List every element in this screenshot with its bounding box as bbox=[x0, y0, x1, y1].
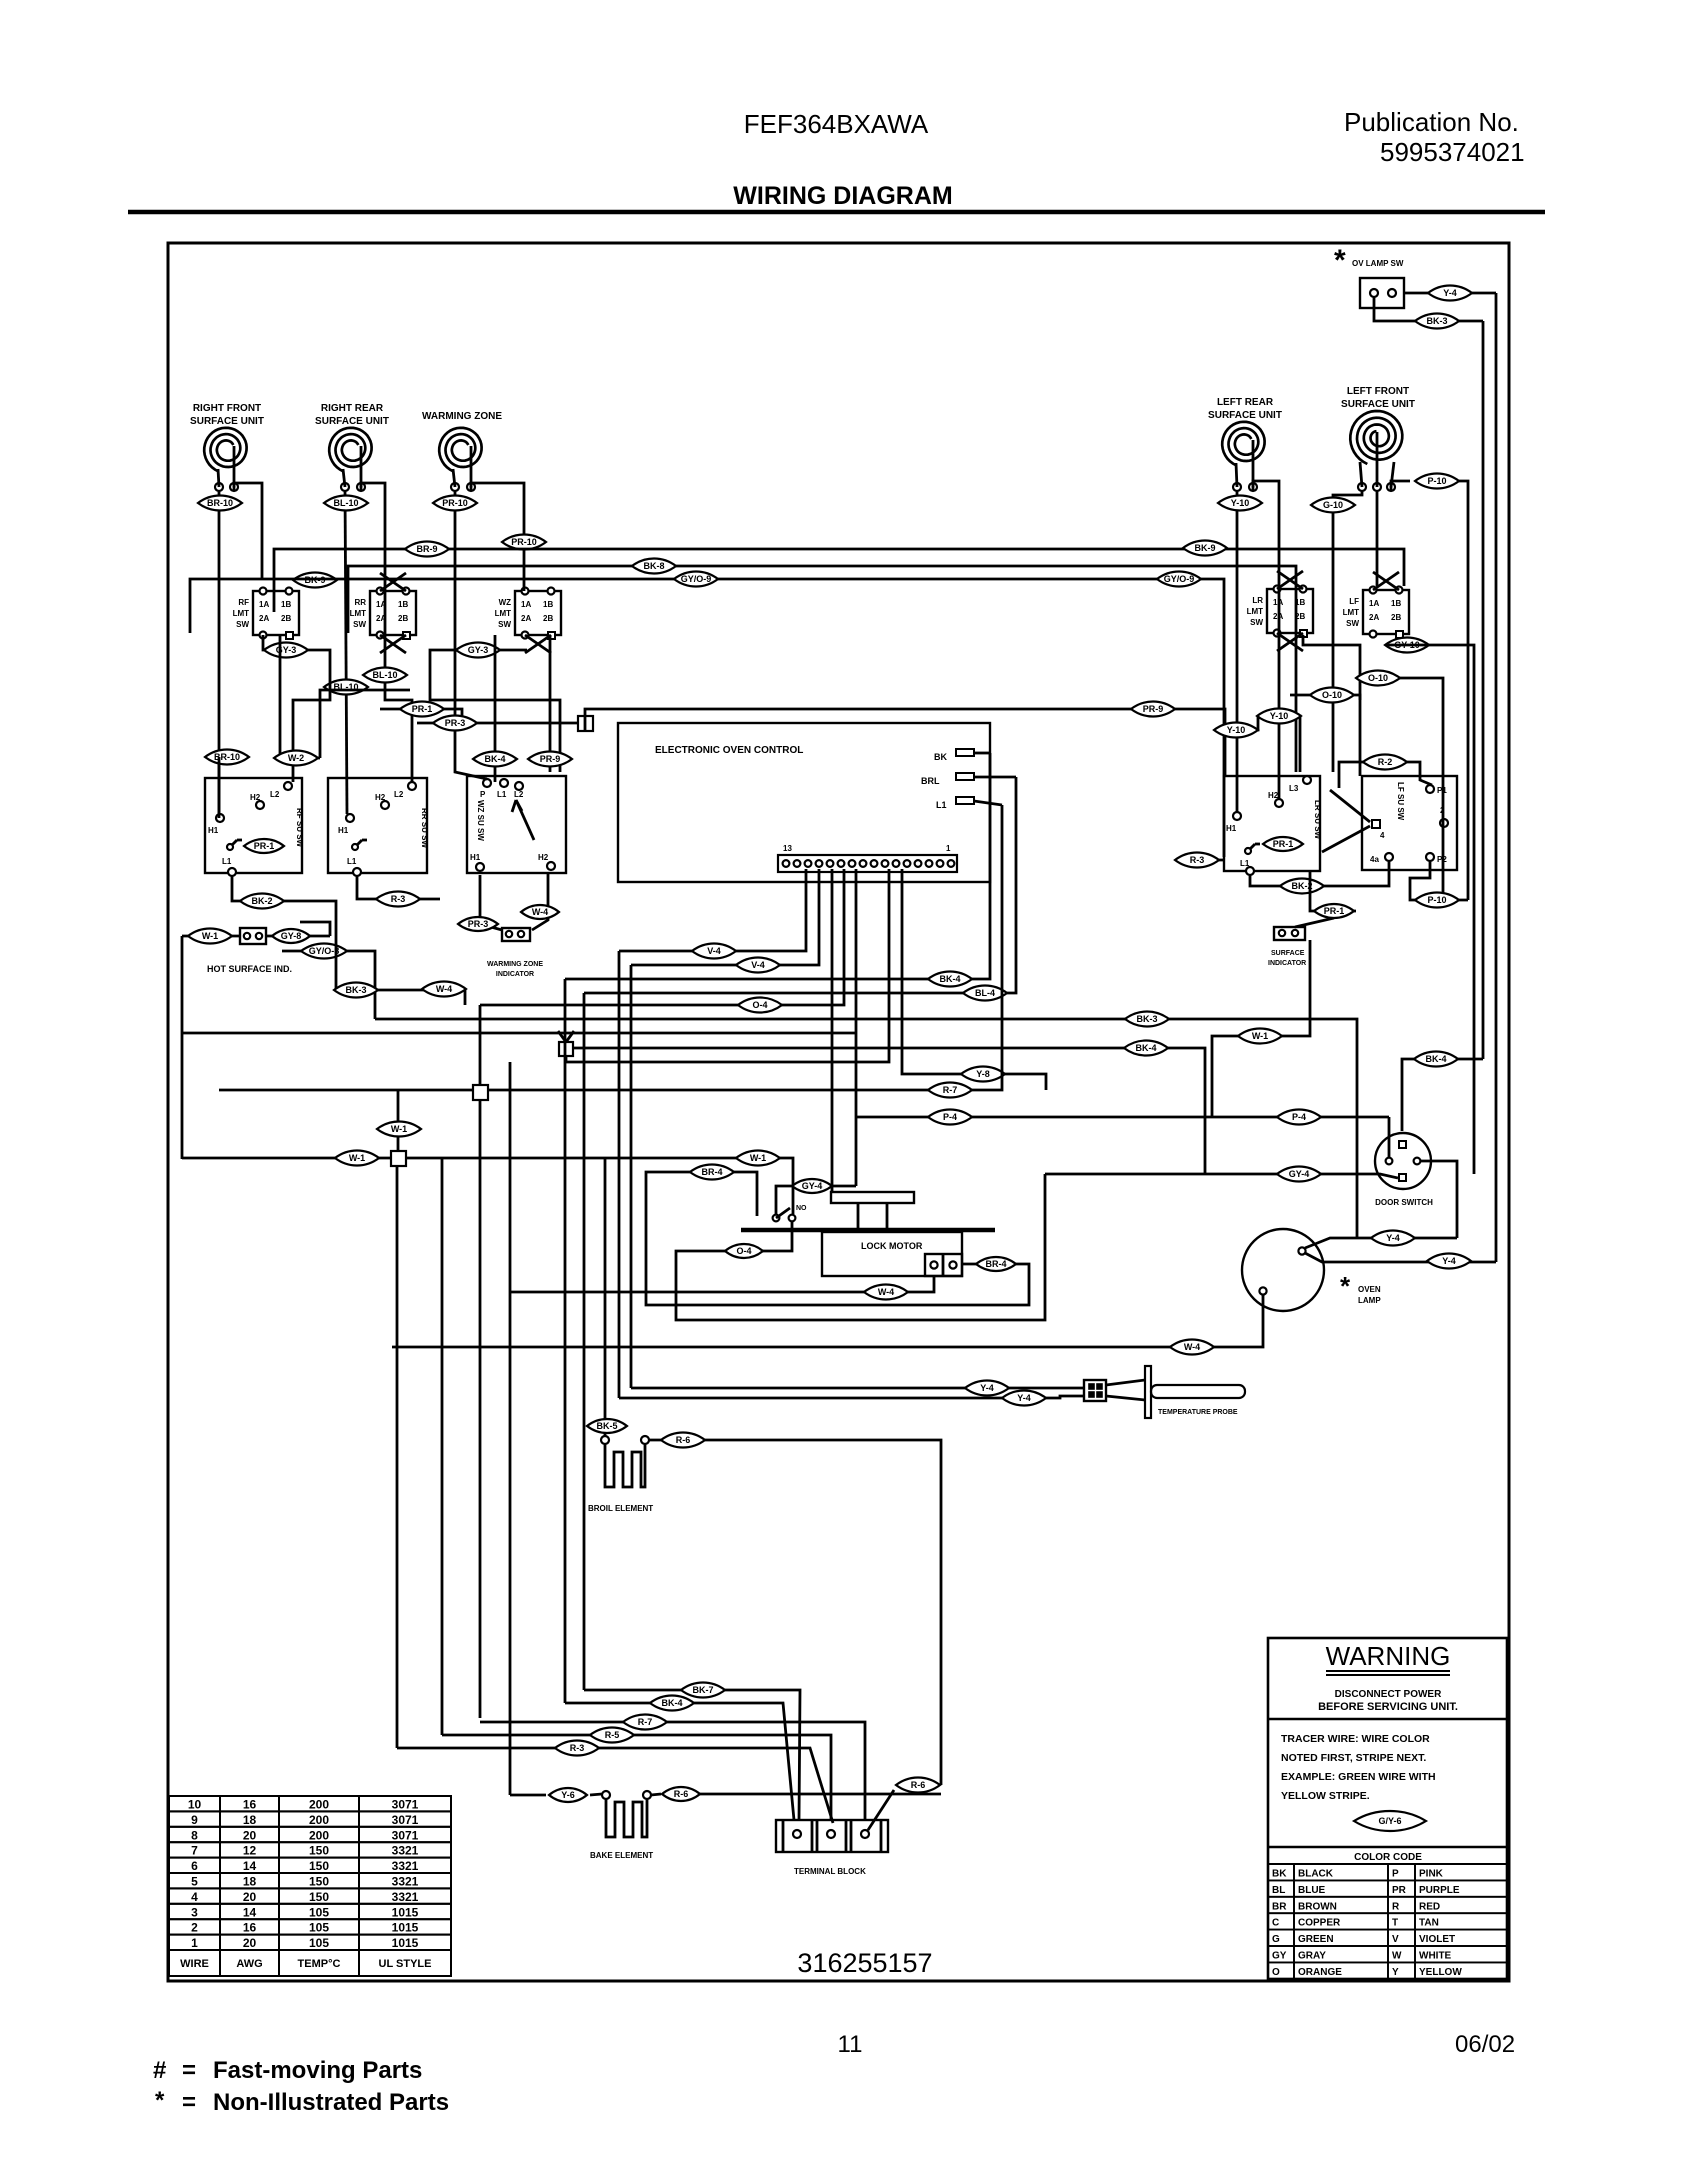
connector oval PR-3 bbox=[458, 917, 498, 931]
svg-text:1015: 1015 bbox=[392, 1936, 419, 1950]
wire bbox=[856, 1116, 1389, 1119]
svg-text:Y-4: Y-4 bbox=[1386, 1233, 1400, 1243]
connector oval BK-9 bbox=[1183, 541, 1227, 556]
lock switch lever contacts bbox=[773, 1215, 780, 1222]
connector oval PR-1 bbox=[400, 702, 444, 717]
svg-text:W-1: W-1 bbox=[202, 931, 218, 941]
wire bbox=[1376, 491, 1379, 586]
svg-text:W-1: W-1 bbox=[1252, 1031, 1268, 1041]
svg-text:LF: LF bbox=[1349, 597, 1359, 606]
svg-text:R-6: R-6 bbox=[674, 1789, 689, 1799]
svg-text:LMT: LMT bbox=[1343, 608, 1360, 617]
svg-text:PR-10: PR-10 bbox=[511, 537, 537, 547]
wire bbox=[1421, 1161, 1457, 1238]
svg-text:BLACK: BLACK bbox=[1298, 1869, 1334, 1880]
wire V-4 run bbox=[631, 869, 819, 965]
connector oval V-4 bbox=[736, 958, 780, 973]
svg-text:Y-4: Y-4 bbox=[1017, 1393, 1031, 1403]
lock motor bar bbox=[741, 1228, 995, 1233]
svg-text:#: # bbox=[153, 2057, 166, 2084]
svg-text:V-4: V-4 bbox=[751, 960, 765, 970]
svg-text:105: 105 bbox=[309, 1921, 329, 1935]
svg-text:BEFORE SERVICING UNIT.: BEFORE SERVICING UNIT. bbox=[1318, 1701, 1458, 1713]
wire long run BR-9/BK-9 bbox=[274, 549, 1404, 612]
svg-text:3071: 3071 bbox=[392, 1798, 419, 1812]
connector oval BK-3 bbox=[1415, 314, 1459, 329]
connector oval GY/O-9 bbox=[1157, 572, 1201, 587]
svg-text:G-10: G-10 bbox=[1323, 500, 1343, 510]
svg-text:VIOLET: VIOLET bbox=[1419, 1934, 1455, 1945]
wire bbox=[974, 752, 990, 755]
svg-text:16: 16 bbox=[243, 1798, 257, 1812]
svg-text:1B: 1B bbox=[398, 600, 408, 609]
svg-text:Y-4: Y-4 bbox=[980, 1383, 994, 1393]
connector oval Y-10 bbox=[1218, 496, 1262, 511]
wire bbox=[532, 872, 548, 930]
wire bbox=[1374, 297, 1415, 321]
svg-text:LAMP: LAMP bbox=[1358, 1296, 1381, 1305]
svg-text:PINK: PINK bbox=[1419, 1869, 1444, 1880]
connector oval W-2 bbox=[274, 751, 318, 766]
svg-text:WARMING ZONE: WARMING ZONE bbox=[422, 411, 502, 422]
wire bbox=[634, 1735, 831, 1820]
svg-text:SW: SW bbox=[353, 620, 366, 629]
svg-text:*: * bbox=[155, 2087, 165, 2114]
wire bbox=[1495, 293, 1498, 1262]
electronic oven control box bbox=[618, 723, 990, 882]
svg-text:Y: Y bbox=[1392, 1967, 1399, 1978]
wire bbox=[1253, 481, 1279, 799]
wire bbox=[494, 635, 497, 782]
wire bbox=[509, 1062, 512, 1795]
svg-text:R-3: R-3 bbox=[570, 1743, 585, 1753]
svg-text:150: 150 bbox=[309, 1859, 329, 1873]
svg-text:BK-8: BK-8 bbox=[643, 561, 664, 571]
svg-text:16: 16 bbox=[243, 1921, 257, 1935]
connector oval R-2 bbox=[1363, 755, 1407, 770]
svg-text:P: P bbox=[1392, 1869, 1399, 1880]
wire bbox=[441, 1158, 444, 1735]
wire crossover below WZ LMT bbox=[525, 635, 551, 653]
svg-text:=: = bbox=[182, 2057, 196, 2084]
wire bbox=[232, 876, 336, 990]
wire bbox=[831, 869, 834, 1192]
wire bbox=[263, 635, 330, 782]
svg-text:105: 105 bbox=[309, 1905, 329, 1919]
wire bbox=[700, 1793, 941, 1796]
svg-text:5995374021: 5995374021 bbox=[1380, 137, 1525, 167]
connector oval G-10 bbox=[1311, 498, 1355, 513]
connector oval R-7 bbox=[623, 1715, 667, 1730]
surface switch LR SU SW bbox=[1224, 776, 1320, 871]
svg-text:LEFT REAR: LEFT REAR bbox=[1217, 397, 1274, 408]
svg-text:BR: BR bbox=[1272, 1901, 1287, 1912]
wire O-4 run bbox=[676, 1174, 1045, 1320]
title underline rule bbox=[128, 210, 1545, 215]
wire bbox=[1216, 716, 1258, 730]
limit switch WZ LMT SW bbox=[515, 591, 561, 635]
connector oval O-4 bbox=[725, 1244, 763, 1258]
svg-text:BK-4: BK-4 bbox=[939, 974, 960, 984]
connector oval Y-6 bbox=[549, 1788, 587, 1802]
svg-text:GY-8: GY-8 bbox=[281, 931, 302, 941]
connector oval Y-10 bbox=[1257, 709, 1301, 724]
lock motor body bbox=[822, 1232, 962, 1276]
svg-text:105: 105 bbox=[309, 1936, 329, 1950]
wire BRL run bbox=[584, 777, 1016, 993]
svg-text:YELLOW STRIPE.: YELLOW STRIPE. bbox=[1281, 1790, 1370, 1802]
svg-text:BK-4: BK-4 bbox=[661, 1698, 682, 1708]
svg-text:1B: 1B bbox=[281, 600, 291, 609]
svg-text:V-4: V-4 bbox=[707, 946, 721, 956]
surface switch LF SU SW bbox=[1362, 776, 1457, 870]
bake element terminals bbox=[602, 1791, 610, 1799]
svg-text:SURFACE UNIT: SURFACE UNIT bbox=[1341, 399, 1415, 410]
connector oval W-4 bbox=[422, 982, 466, 997]
connector oval BK-2 bbox=[1280, 879, 1324, 894]
svg-text:O: O bbox=[1272, 1967, 1280, 1978]
wire bbox=[667, 1722, 865, 1820]
wire crossover below RR LMT bbox=[380, 635, 406, 653]
svg-text:R-3: R-3 bbox=[391, 894, 406, 904]
connector oval BK-4 bbox=[650, 1696, 694, 1711]
wire W-4 return bbox=[511, 1276, 934, 1292]
wire bbox=[974, 776, 1016, 779]
wire crossover below LR LMT bbox=[1277, 633, 1303, 651]
svg-text:BK-4: BK-4 bbox=[1135, 1043, 1156, 1053]
svg-text:HOT SURFACE IND.: HOT SURFACE IND. bbox=[207, 964, 292, 974]
svg-text:3321: 3321 bbox=[392, 1844, 419, 1858]
surface unit coil RIGHT REAR bbox=[329, 428, 371, 472]
wire bbox=[361, 483, 412, 782]
svg-text:BR-9: BR-9 bbox=[416, 544, 437, 554]
svg-text:TERMINAL BLOCK: TERMINAL BLOCK bbox=[794, 1867, 866, 1876]
junction bbox=[559, 1042, 573, 1056]
svg-text:O-10: O-10 bbox=[1322, 690, 1342, 700]
svg-text:G/Y-6: G/Y-6 bbox=[1378, 1816, 1401, 1826]
svg-text:GY-4: GY-4 bbox=[1289, 1169, 1310, 1179]
connector oval GY-4 bbox=[1277, 1167, 1321, 1182]
wire crossover above LR LMT bbox=[1277, 571, 1303, 589]
wire long run PR-9 bbox=[585, 709, 1225, 776]
svg-text:C: C bbox=[1272, 1918, 1279, 1929]
svg-text:WHITE: WHITE bbox=[1419, 1951, 1452, 1962]
hot surface indicator box bbox=[240, 928, 266, 944]
wire bbox=[1176, 859, 1224, 862]
svg-text:ORANGE: ORANGE bbox=[1298, 1967, 1342, 1978]
wire bbox=[1305, 1253, 1496, 1262]
wire bbox=[974, 801, 1002, 805]
svg-text:BROWN: BROWN bbox=[1298, 1901, 1337, 1912]
svg-text:L1: L1 bbox=[936, 800, 947, 810]
wire bbox=[479, 1005, 482, 1085]
EOC terminal strip bbox=[778, 855, 957, 872]
svg-text:W-1: W-1 bbox=[391, 1124, 407, 1134]
connector oval P-10 bbox=[1415, 474, 1459, 489]
limit switch RR LMT SW bbox=[370, 591, 416, 635]
svg-text:AWG: AWG bbox=[236, 1958, 262, 1970]
wire bbox=[480, 875, 502, 930]
svg-text:YELLOW: YELLOW bbox=[1419, 1967, 1462, 1978]
wire bbox=[406, 1158, 793, 1214]
svg-text:L2: L2 bbox=[270, 790, 280, 799]
wire bbox=[510, 1794, 546, 1797]
svg-text:SURFACE UNIT: SURFACE UNIT bbox=[1208, 410, 1282, 421]
svg-text:2A: 2A bbox=[1369, 613, 1379, 622]
connector oval GY-8 bbox=[272, 929, 310, 943]
connector oval GY/O-9 bbox=[674, 572, 718, 587]
svg-text:WIRE: WIRE bbox=[180, 1958, 209, 1970]
connector oval PR-10 bbox=[502, 535, 546, 550]
svg-text:3321: 3321 bbox=[392, 1859, 419, 1873]
wire Y-4 run bbox=[631, 1387, 1084, 1390]
svg-text:LMT: LMT bbox=[350, 609, 367, 618]
svg-text:Non-Illustrated Parts: Non-Illustrated Parts bbox=[213, 2089, 449, 2116]
connector oval P-4 bbox=[1277, 1110, 1321, 1125]
svg-text:DOOR SWITCH: DOOR SWITCH bbox=[1375, 1198, 1433, 1207]
temperature probe tube bbox=[1151, 1385, 1245, 1398]
svg-text:GY/O-9: GY/O-9 bbox=[1164, 574, 1195, 584]
connector oval W-1 bbox=[188, 929, 232, 944]
svg-text:R-3: R-3 bbox=[1190, 855, 1205, 865]
connector oval BL-4 bbox=[963, 986, 1007, 1001]
wire WZ coil lead bbox=[455, 491, 487, 779]
limit switch LF LMT SW bbox=[1363, 590, 1409, 634]
wire bbox=[397, 1099, 400, 1151]
svg-text:H2: H2 bbox=[250, 793, 261, 802]
surface unit coil WARMING ZONE bbox=[439, 428, 481, 472]
connector oval P-4 bbox=[928, 1110, 972, 1125]
connector oval W-1 bbox=[736, 1151, 780, 1166]
lock motor switch contacts bbox=[930, 1261, 937, 1268]
svg-text:R-7: R-7 bbox=[638, 1717, 653, 1727]
wire bbox=[902, 869, 1046, 1090]
svg-text:BL: BL bbox=[1272, 1885, 1285, 1896]
wire bbox=[300, 922, 330, 936]
wire bbox=[357, 876, 440, 899]
svg-text:PR-1: PR-1 bbox=[1273, 839, 1294, 849]
svg-text:2B: 2B bbox=[398, 614, 408, 623]
connector oval BK-4 bbox=[1124, 1041, 1168, 1056]
svg-text:7: 7 bbox=[191, 1844, 198, 1858]
svg-text:H1: H1 bbox=[1226, 824, 1237, 833]
svg-text:GY: GY bbox=[1272, 1951, 1287, 1962]
svg-text:R-6: R-6 bbox=[911, 1780, 926, 1790]
svg-text:UL STYLE: UL STYLE bbox=[379, 1958, 432, 1970]
svg-text:18: 18 bbox=[243, 1813, 257, 1827]
svg-text:1B: 1B bbox=[1391, 599, 1401, 608]
junction bbox=[473, 1085, 488, 1100]
wire O-4 run bbox=[480, 869, 844, 1005]
wire GY/O-8 run bbox=[282, 951, 375, 1019]
connector oval PR-1 bbox=[1263, 837, 1303, 851]
svg-text:SURFACE: SURFACE bbox=[1271, 950, 1305, 957]
temperature probe taper bbox=[1106, 1380, 1145, 1385]
wire bbox=[181, 936, 184, 1159]
svg-text:2A: 2A bbox=[259, 614, 269, 623]
svg-text:L2: L2 bbox=[514, 790, 524, 799]
wire bbox=[182, 1157, 391, 1160]
terminal block dividers bbox=[811, 1820, 814, 1852]
svg-text:P-10: P-10 bbox=[1427, 895, 1446, 905]
svg-text:6: 6 bbox=[191, 1859, 198, 1873]
oven lamp switch box bbox=[1360, 278, 1404, 308]
wire bbox=[599, 1748, 833, 1823]
wire bbox=[564, 979, 567, 1703]
svg-text:RR: RR bbox=[354, 598, 366, 607]
wire long run GY/O-9 bbox=[190, 579, 1224, 857]
connector oval BK-9 bbox=[293, 573, 337, 588]
wire bbox=[583, 993, 586, 1690]
svg-text:BLUE: BLUE bbox=[1298, 1885, 1326, 1896]
connector oval R-6 bbox=[661, 1433, 705, 1448]
connector oval BK-3 bbox=[1125, 1012, 1169, 1027]
wire bbox=[219, 1089, 473, 1092]
svg-text:FEF364BXAWA: FEF364BXAWA bbox=[744, 109, 929, 139]
svg-text:W-4: W-4 bbox=[1184, 1342, 1200, 1352]
connector oval PR-3 bbox=[433, 716, 477, 731]
svg-text:RIGHT REAR: RIGHT REAR bbox=[321, 403, 384, 414]
wire RF coil to H1 bbox=[218, 491, 221, 814]
svg-text:BK-4: BK-4 bbox=[484, 754, 505, 764]
svg-text:BR-4: BR-4 bbox=[701, 1167, 722, 1177]
connector oval PR-1 bbox=[1314, 904, 1354, 918]
svg-text:3321: 3321 bbox=[392, 1890, 419, 1904]
connector oval P-10 bbox=[1415, 893, 1459, 908]
svg-text:1A: 1A bbox=[521, 600, 531, 609]
connector oval BK-7 bbox=[681, 1683, 725, 1698]
connector oval BR-10 bbox=[198, 496, 242, 511]
svg-text:2B: 2B bbox=[1391, 613, 1401, 622]
svg-text:OVEN: OVEN bbox=[1358, 1285, 1381, 1294]
wire gauge table bbox=[169, 1796, 220, 1811]
wire bbox=[234, 483, 262, 579]
connector oval W-4 bbox=[521, 905, 559, 919]
wire crossover above RR LMT bbox=[380, 573, 406, 591]
svg-text:BK-2: BK-2 bbox=[251, 896, 272, 906]
broil element bbox=[605, 1444, 645, 1487]
svg-text:L3: L3 bbox=[1289, 784, 1299, 793]
wire bbox=[566, 869, 889, 1062]
connector oval R-3 bbox=[1175, 853, 1219, 868]
connector oval W-1 bbox=[377, 1122, 421, 1137]
wire bbox=[1472, 292, 1496, 295]
wire PR-3 run bbox=[417, 722, 578, 725]
svg-text:L1: L1 bbox=[222, 857, 232, 866]
wire bbox=[1310, 871, 1356, 911]
surface switch RF SU SW bbox=[205, 778, 302, 873]
connector oval GY-4 bbox=[792, 1179, 832, 1193]
wire bbox=[1410, 861, 1468, 900]
connector oval BL-10 bbox=[363, 668, 407, 683]
wire bbox=[590, 1794, 602, 1795]
svg-text:W-4: W-4 bbox=[532, 907, 548, 917]
svg-text:RF: RF bbox=[238, 598, 249, 607]
connector oval G/Y-6 bbox=[1354, 1811, 1426, 1831]
svg-text:1015: 1015 bbox=[392, 1905, 419, 1919]
connector oval O-4 bbox=[738, 998, 782, 1013]
svg-text:P-4: P-4 bbox=[1292, 1112, 1306, 1122]
svg-text:20: 20 bbox=[243, 1890, 257, 1904]
wire bbox=[868, 1790, 894, 1830]
svg-text:R-7: R-7 bbox=[943, 1085, 958, 1095]
svg-text:P-10: P-10 bbox=[1427, 476, 1446, 486]
connector oval BK-8 bbox=[632, 559, 676, 574]
connector oval BK-5 bbox=[587, 1419, 627, 1433]
svg-text:BK-4: BK-4 bbox=[1425, 1054, 1446, 1064]
svg-text:SW: SW bbox=[1250, 618, 1263, 627]
wire bbox=[479, 1100, 482, 1718]
svg-text:BK: BK bbox=[934, 752, 947, 762]
wire bbox=[1295, 918, 1334, 927]
svg-text:O-10: O-10 bbox=[1368, 673, 1388, 683]
oven lamp terminals bbox=[1298, 1247, 1305, 1254]
svg-text:4: 4 bbox=[1380, 831, 1385, 840]
svg-text:COLOR CODE: COLOR CODE bbox=[1354, 1852, 1422, 1863]
wire bbox=[651, 1794, 661, 1795]
svg-text:L1: L1 bbox=[347, 857, 357, 866]
temperature probe flange bbox=[1145, 1366, 1151, 1418]
connector oval PR-10 bbox=[433, 496, 477, 511]
connector oval BK-3 bbox=[334, 983, 378, 998]
connector oval BR-4 bbox=[976, 1257, 1016, 1271]
svg-text:COPPER: COPPER bbox=[1298, 1918, 1341, 1929]
svg-text:SURFACE UNIT: SURFACE UNIT bbox=[315, 416, 389, 427]
wire bbox=[397, 1090, 400, 1099]
svg-text:RF SU SW: RF SU SW bbox=[295, 808, 304, 848]
svg-text:1A: 1A bbox=[1369, 599, 1379, 608]
svg-text:BRL: BRL bbox=[921, 776, 940, 786]
svg-text:GY/O-9: GY/O-9 bbox=[681, 574, 712, 584]
surface unit coil terminals bbox=[215, 483, 223, 491]
wire bbox=[565, 1702, 650, 1705]
wire LR coil to H1 bbox=[1236, 491, 1239, 812]
svg-text:V: V bbox=[1392, 1934, 1399, 1945]
svg-text:11: 11 bbox=[838, 2031, 863, 2058]
surface unit coil lead wires bbox=[218, 469, 219, 487]
connector oval PR-9 bbox=[1131, 702, 1175, 717]
svg-text:BL-10: BL-10 bbox=[372, 670, 397, 680]
svg-text:3321: 3321 bbox=[392, 1875, 419, 1889]
svg-text:LOCK MOTOR: LOCK MOTOR bbox=[861, 1241, 923, 1251]
lock motor cam plate bbox=[831, 1192, 914, 1203]
svg-text:RR SU SW: RR SU SW bbox=[420, 808, 429, 848]
connector oval Y-4 bbox=[1371, 1231, 1415, 1246]
svg-text:RED: RED bbox=[1419, 1901, 1440, 1912]
wire bbox=[1212, 940, 1310, 1117]
svg-text:Y-6: Y-6 bbox=[561, 1790, 575, 1800]
connector oval GY-3 bbox=[264, 643, 308, 658]
wire bbox=[549, 635, 552, 772]
svg-text:316255157: 316255157 bbox=[797, 1948, 932, 1978]
wire bbox=[397, 1747, 555, 1750]
svg-text:GRAY: GRAY bbox=[1298, 1951, 1326, 1962]
wire bbox=[1388, 1117, 1391, 1160]
wire bbox=[1391, 481, 1410, 491]
wire bbox=[649, 1440, 941, 1785]
svg-text:W-4: W-4 bbox=[436, 984, 452, 994]
connector oval GY-10 bbox=[1385, 638, 1429, 653]
wire bbox=[218, 757, 221, 818]
svg-text:W-4: W-4 bbox=[878, 1287, 894, 1297]
svg-text:BK: BK bbox=[1272, 1869, 1287, 1880]
svg-text:O-4: O-4 bbox=[752, 1000, 767, 1010]
svg-text:INDICATOR: INDICATOR bbox=[1268, 960, 1306, 967]
svg-text:150: 150 bbox=[309, 1875, 329, 1889]
svg-text:10: 10 bbox=[188, 1798, 202, 1812]
svg-text:BR-4: BR-4 bbox=[985, 1259, 1006, 1269]
wire GY-4 run bbox=[776, 1186, 856, 1214]
